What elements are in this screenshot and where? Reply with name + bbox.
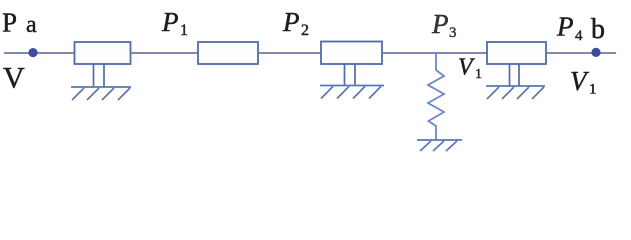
wire: between section 1 and section 2 [130,52,198,54]
svg-text:P: P [282,7,300,37]
stub (double line) from section 3 to ground [344,64,346,86]
svg-text:b: b [591,14,605,45]
svg-text:V: V [458,55,475,81]
wire: output segment from section 4 to right edge [546,52,616,54]
ground under section 3 [320,86,384,99]
svg-text:P: P [2,8,17,38]
transmission-line section 2 (series box) [198,42,258,64]
wire: left input segment from edge to section 1 [4,52,74,54]
transmission-line section 3 (shunt-grounded box) [321,42,382,65]
svg-text:P: P [556,12,574,42]
svg-text:1: 1 [589,82,597,98]
svg-text:3: 3 [449,25,457,41]
svg-text:P: P [431,9,449,39]
svg-text:P: P [161,7,179,37]
ground under resistor [417,140,462,151]
wire: between section 2 and section 3 [258,52,321,54]
stub (double line) from section 4 to ground [509,64,511,86]
node b (output terminal dot) [591,48,600,57]
stub (double line) from section 1 to ground [93,64,95,87]
svg-text:2: 2 [301,22,309,39]
transmission-line section 1 (shunt-grounded box) [75,42,131,64]
svg-text:4: 4 [575,28,583,44]
node a (input terminal dot) [28,48,37,57]
svg-text:1: 1 [475,67,482,82]
svg-text:a: a [26,12,37,38]
svg-text:V: V [3,62,25,95]
svg-text:1: 1 [180,22,188,39]
ground under section 4 [486,86,545,99]
resistor R to ground at node P3 [428,53,444,140]
ground under section 1 [71,87,131,100]
wire: between section 3 and section 4 through node P3 [382,52,487,54]
transmission-line section 4 (shunt-grounded box) [487,42,546,64]
